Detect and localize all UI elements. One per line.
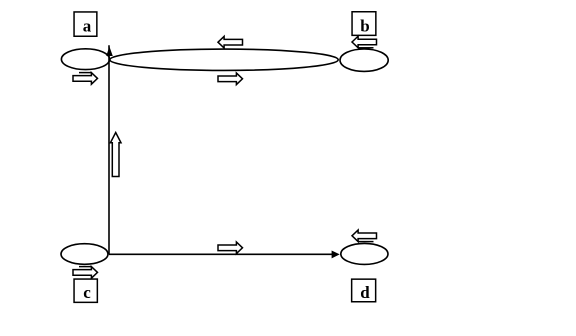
block arrow left under box b — [352, 36, 377, 48]
block arrow right between ellipse c and box c — [73, 267, 98, 279]
block arrow right under ellipse a — [73, 73, 98, 85]
block arrow left above big ellipse — [218, 36, 243, 48]
block arrow up beside vertical wire — [110, 133, 121, 177]
block arrow left above ellipse d — [352, 230, 377, 242]
ellipse a — [61, 49, 109, 70]
svg-text:c: c — [83, 283, 91, 302]
svg-text:a: a — [83, 16, 92, 35]
arrowhead up into a — [107, 48, 112, 56]
state box c — [74, 279, 97, 302]
svg-text:d: d — [360, 283, 370, 302]
wire c to a vertical — [108, 45, 110, 254]
ellipse b — [340, 49, 388, 71]
ellipse c — [61, 244, 108, 265]
state box a — [74, 12, 97, 36]
svg-text:b: b — [360, 16, 369, 35]
state box d — [352, 279, 376, 302]
arrowhead right into d — [332, 251, 339, 258]
state box b — [352, 12, 376, 36]
block arrow right below big ellipse — [218, 73, 243, 85]
wire c to d horizontal — [109, 253, 333, 255]
ellipse d — [341, 243, 388, 264]
big ellipse loop a-b — [110, 49, 338, 70]
block arrow right above horizontal wire — [218, 242, 243, 254]
